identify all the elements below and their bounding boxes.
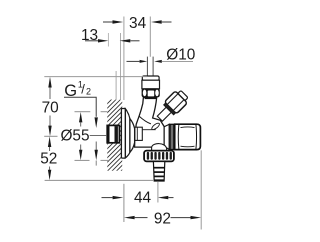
body shoulder line: [139, 116, 151, 124]
axis tick: [44, 135, 57, 137]
dim 13: [81, 27, 140, 47]
top compression nut: [142, 76, 160, 98]
dim 70: [42, 77, 148, 137]
hose nipple: [153, 162, 164, 182]
45 degree outlet: [154, 88, 191, 125]
body lens detail: [151, 122, 161, 131]
dim 92: [124, 210, 201, 227]
top pipe: [147, 57, 153, 77]
svg-text:70: 70: [42, 99, 59, 116]
dim Ø10: [127, 47, 196, 64]
svg-text:Ø55: Ø55: [60, 128, 89, 145]
extension lines bottom: [123, 184, 125, 222]
svg-text:44: 44: [134, 190, 152, 207]
bonnet dome above handle: [152, 144, 167, 151]
svg-text:52: 52: [40, 150, 57, 167]
label G 1/2 with leader: [64, 80, 98, 128]
wall line inner: [115, 71, 117, 100]
G1/2 inlet nipple in wall: [107, 125, 119, 142]
valve body: [135, 97, 165, 147]
extension line 34/44/92 left: [123, 17, 125, 101]
dim 44: [102, 190, 174, 207]
body hub at rosette: [135, 127, 142, 140]
right outlet union: [164, 124, 175, 149]
dim Ø55: [60, 112, 110, 166]
wall hatching: [100, 81, 130, 201]
svg-text:2: 2: [86, 87, 91, 97]
right compression nut: [175, 124, 201, 149]
handle knurled: [144, 151, 174, 162]
svg-text:34: 34: [129, 15, 147, 32]
wall face line: [120, 33, 122, 100]
svg-text:Ø10: Ø10: [166, 47, 195, 64]
rosette Ø55: [121, 109, 134, 159]
dim 34: [103, 15, 172, 32]
pipe axis extension: [149, 17, 151, 57]
dim 52: [40, 136, 57, 180]
svg-text:/: /: [81, 82, 85, 97]
body detail line: [142, 129, 155, 131]
bottom extension line 52: [45, 179, 154, 181]
svg-text:92: 92: [154, 210, 171, 227]
